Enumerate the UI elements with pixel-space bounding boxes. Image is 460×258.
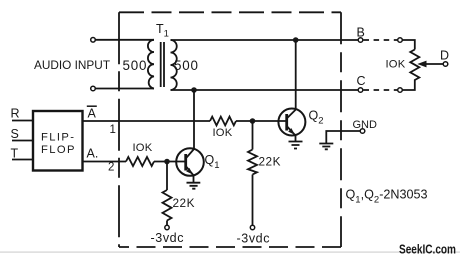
transistor Q1 circle (176, 148, 204, 176)
transistor Q2 collector lead (287, 110, 296, 119)
transformer T1 core (161, 42, 164, 87)
wire audio bottom to T1 primary (95, 88, 154, 90)
transistor Q1 base bar (184, 154, 187, 171)
svg-text:2: 2 (108, 162, 114, 174)
svg-text:GND: GND (353, 119, 378, 131)
svg-text:-3vdc: -3vdc (151, 231, 185, 245)
wire 10K to Q2 base (236, 120, 287, 122)
dashed wire B to potentiometer (364, 39, 398, 41)
svg-text:Q2: Q2 (309, 109, 324, 127)
audio input terminal top (91, 38, 96, 43)
dashed enclosure left edge (118, 12, 120, 247)
transistor Q1 emitter lead (186, 166, 194, 182)
transformer T1 secondary winding (171, 40, 177, 90)
terminal pot bottom (398, 88, 403, 93)
ground Q1 emitter (187, 183, 201, 189)
svg-text:FLOP: FLOP (41, 144, 76, 156)
dashed enclosure bottom edge (119, 246, 341, 248)
wire secondary bottom to terminal C (171, 89, 359, 91)
svg-text:500: 500 (174, 58, 199, 73)
node junction Q1 base / 22K (164, 159, 170, 165)
wire output 2 (A) to 10K (83, 161, 127, 163)
wire audio top to T1 primary (95, 39, 154, 41)
svg-text:-3vdc: -3vdc (237, 232, 271, 246)
wire junction down to 22K (Q2) (252, 121, 254, 150)
wire 22K to -3vdc terminal 2 (252, 175, 254, 226)
svg-text:1: 1 (110, 124, 116, 136)
terminal -3vdc 2 (250, 225, 254, 229)
wire Q1 collector vertical (193, 90, 195, 149)
transformer T1 primary winding (148, 40, 154, 89)
node junction Q2 base / 22K (250, 118, 256, 124)
wiper arrowhead (417, 61, 426, 68)
transistor Q2 circle (278, 109, 305, 136)
resistor 10K (Q1 base) (126, 157, 154, 166)
resistor 22K (Q2) (248, 150, 257, 175)
wiper wire to D (424, 63, 443, 65)
svg-text:Q1: Q1 (205, 153, 220, 171)
svg-text:IOK: IOK (133, 142, 153, 154)
svg-text:A.: A. (87, 146, 99, 160)
svg-text:C: C (357, 74, 366, 88)
svg-text:S: S (11, 127, 19, 141)
audio input terminal bottom (91, 86, 96, 91)
flip-flop box U1 (33, 111, 83, 171)
svg-text:AUDIO INPUT: AUDIO INPUT (34, 58, 110, 72)
svg-text:FLIP-: FLIP- (41, 132, 75, 144)
ground Q2 emitter (289, 142, 303, 149)
wire input S stub (12, 140, 33, 142)
resistor 10K (Q2 base) (210, 117, 236, 126)
terminal GND (360, 129, 365, 134)
svg-text:IOK: IOK (213, 127, 233, 139)
dashed wire C to potentiometer (364, 89, 398, 91)
terminal D (443, 62, 448, 67)
wire pot top lead (402, 40, 415, 50)
wire output 1 (A-bar) to 10K (83, 120, 211, 122)
svg-text:SeekIC.com: SeekIC.com (399, 243, 456, 257)
wire secondary top to terminal B (171, 39, 359, 41)
svg-text:D: D (440, 49, 449, 63)
wire Q2 collector vertical (295, 40, 297, 110)
svg-text:T1: T1 (156, 22, 169, 40)
svg-text:22K: 22K (259, 155, 282, 169)
resistor 22K (Q1) (163, 190, 172, 221)
transistor Q2 emitter arrow (288, 128, 295, 135)
svg-text:R: R (11, 106, 20, 120)
wire 10K to Q1 base (154, 161, 186, 163)
svg-text:A: A (88, 106, 97, 120)
wire 22K to -3vdc terminal 1 (166, 221, 168, 226)
wire junction down to 22K (Q1) (166, 162, 168, 191)
wire GND to ground (326, 131, 360, 143)
transistor Q2 base bar (285, 114, 288, 131)
svg-text:500: 500 (123, 58, 148, 73)
svg-text:IOK: IOK (386, 59, 406, 71)
svg-text:B: B (357, 26, 365, 40)
terminal -3vdc 1 (165, 225, 169, 229)
svg-text:22K: 22K (173, 196, 196, 210)
svg-text:Q1,Q2-2N3053: Q1,Q2-2N3053 (346, 188, 428, 206)
potentiometer 10K body (410, 50, 419, 85)
scan artifact gray line (0, 251, 460, 252)
dashed enclosure right edge (340, 12, 342, 247)
terminal C (358, 88, 363, 93)
node junction Q2 collector on top wire (293, 37, 299, 43)
dashed enclosure top edge (119, 11, 341, 13)
svg-text:T: T (11, 146, 19, 160)
transistor Q1 emitter arrow (186, 168, 193, 175)
terminal B (358, 38, 363, 43)
node junction Q1 collector on bottom wire (191, 87, 197, 93)
A-bar overline (87, 105, 97, 107)
transistor Q1 collector lead (186, 149, 194, 159)
wire input T stub (12, 159, 33, 161)
transistor Q2 emitter lead (287, 126, 296, 141)
wire pot bottom lead (402, 84, 415, 90)
terminal pot top (398, 38, 403, 43)
wire input R stub (12, 120, 33, 122)
ground symbol GND (319, 144, 333, 150)
